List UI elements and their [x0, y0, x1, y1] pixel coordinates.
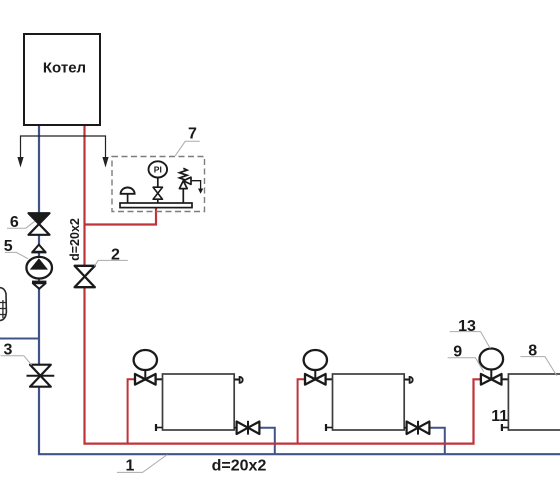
label 1 with leader [117, 455, 167, 475]
pressure gauge PI [149, 161, 168, 203]
valve 3 (balancing/drain valve on return) [27, 365, 55, 387]
svg-text:5: 5 [4, 238, 13, 255]
radiator 1: lockshield valve bottom right [234, 421, 259, 435]
svg-text:Котел: Котел [43, 59, 86, 76]
radiator 3 body (8, cut off at right edge) [508, 374, 560, 430]
label 8 with leader [520, 343, 556, 376]
air vent on manifold [121, 187, 135, 203]
gauge shut-off valve [153, 187, 162, 199]
check valve above pump (item 5 pointer) [31, 245, 46, 253]
svg-text:11: 11 [491, 408, 508, 425]
wire: blue branch to expansion tank [0, 338, 39, 340]
radiator 1: bottom-left plug [156, 424, 163, 431]
radiator 2: air vent plug top right [404, 377, 413, 383]
valve 6 (shut-off valve on return) [29, 213, 50, 235]
label 6 with leader [7, 214, 35, 231]
svg-text:9: 9 [453, 344, 462, 361]
wire: red supply main from boiler down and across to radiator 3 [85, 126, 481, 444]
svg-text:d=20x2: d=20x2 [68, 218, 82, 261]
radiator 3: thermostatic valve 9 [481, 374, 509, 385]
svg-text:8: 8 [528, 343, 537, 360]
wire: red riser radiator 2 [298, 379, 305, 443]
label d=20x2 (bottom return main) [212, 458, 267, 475]
valve 2 (shut-off valve on supply) [75, 266, 95, 287]
radiator 1: air vent plug top right [234, 377, 243, 383]
radiator 1: thermostatic head [134, 350, 157, 379]
radiator 2: thermostatic valve [305, 374, 333, 385]
wire: blue link radiator 1 to return main [259, 428, 274, 455]
safety group manifold bar [120, 203, 192, 208]
svg-text:3: 3 [4, 342, 13, 359]
wire: blue link radiator 2 to return main [429, 428, 444, 455]
boiler Котел [24, 34, 100, 125]
flow direction bracket with arrows [17, 136, 108, 168]
safety relief valve with spring and outlet arrow [179, 168, 203, 203]
svg-text:1: 1 [126, 458, 135, 475]
radiator 1 body [163, 374, 235, 430]
label d=20x2 (vertical on supply pipe) [68, 218, 82, 261]
label 9 with leader [448, 344, 484, 372]
label 13 with leader [450, 318, 491, 348]
check valve below pump [32, 282, 46, 289]
radiator 2 body [333, 374, 405, 430]
svg-text:d=20x2: d=20x2 [212, 458, 267, 475]
label 7 with leader [175, 126, 200, 156]
safety group 7: dashed enclosure [112, 157, 205, 212]
radiator 1: thermostatic valve [135, 374, 163, 385]
radiator 2: lockshield valve bottom right [404, 421, 429, 435]
radiator 3: thermostatic head 13 [480, 349, 504, 380]
svg-text:2: 2 [111, 246, 120, 263]
label 3 with leader [1, 342, 32, 365]
svg-text:7: 7 [188, 126, 197, 143]
svg-text:PI: PI [154, 165, 162, 175]
pump 5 [26, 257, 52, 279]
wire: red riser radiator 1 [128, 379, 135, 443]
svg-text:6: 6 [10, 214, 19, 231]
label 11 [491, 408, 508, 425]
radiator 2: bottom-left plug [326, 424, 333, 431]
label 2 with leader [94, 246, 127, 266]
svg-text:13: 13 [458, 318, 476, 335]
label 5 with leader [4, 238, 28, 259]
wire: red branch to safety group 7 [85, 208, 157, 225]
wire: blue return main from boiler down and across bottom [39, 126, 560, 455]
radiator 2: thermostatic head [304, 350, 327, 379]
expansion tank (cut off at left edge) [0, 288, 6, 321]
radiator 3: bottom-left plug 11 [502, 424, 509, 431]
